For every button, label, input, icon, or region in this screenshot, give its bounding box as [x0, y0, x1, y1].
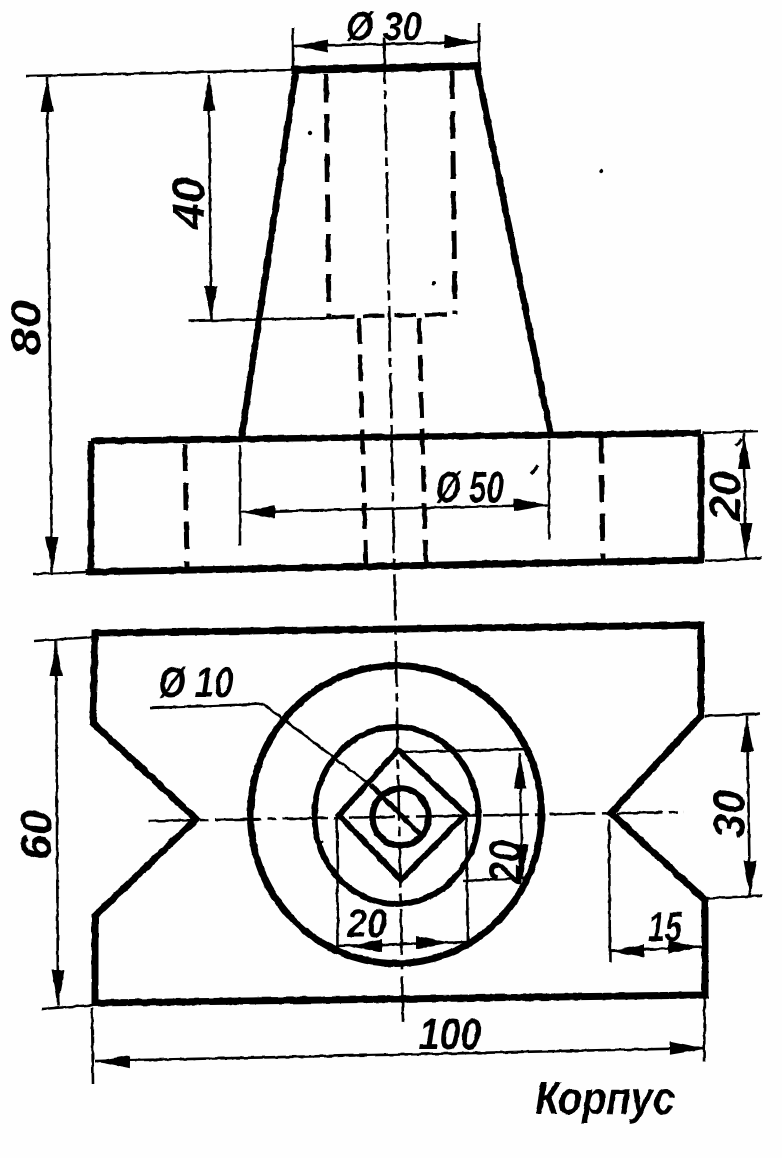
- svg-text:Ø 50: Ø 50: [436, 463, 504, 512]
- svg-text:30: 30: [705, 789, 754, 838]
- svg-text:100: 100: [419, 1010, 481, 1059]
- svg-text:20: 20: [346, 902, 387, 946]
- svg-text:Корпус: Корпус: [535, 1072, 675, 1124]
- svg-text:20: 20: [701, 470, 750, 522]
- svg-text:Ø 10: Ø 10: [159, 659, 234, 707]
- svg-text:15: 15: [648, 903, 682, 950]
- svg-text:60: 60: [12, 809, 61, 860]
- svg-text:20: 20: [480, 840, 531, 885]
- svg-text:80: 80: [2, 300, 49, 356]
- svg-text:Ø 30: Ø 30: [346, 5, 422, 49]
- svg-text:40: 40: [163, 177, 214, 230]
